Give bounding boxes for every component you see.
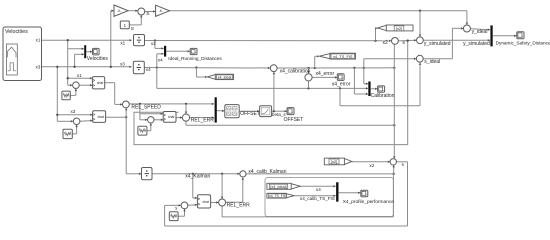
- svg-text:[x4_ideal]: [x4_ideal]: [270, 185, 286, 189]
- svg-text:Ideal_Running_Distances: Ideal_Running_Distances: [168, 56, 222, 61]
- svg-text:x2: x2: [383, 40, 389, 46]
- svg-text:[x2]: [x2]: [396, 26, 402, 31]
- svg-text:xhat: xhat: [168, 115, 174, 119]
- svg-text:x4_TS_FIS: x4_TS_FIS: [269, 194, 287, 198]
- svg-text:x4_ideal: x4_ideal: [218, 76, 232, 80]
- svg-text:x3: x3: [36, 64, 41, 69]
- svg-text:x4: x4: [158, 57, 163, 62]
- svg-text:Calibration: Calibration: [371, 93, 395, 99]
- svg-text:y_simulated: y_simulated: [463, 41, 490, 47]
- svg-text:xhat: xhat: [97, 115, 103, 119]
- svg-text:x4_calib_Kalman: x4_calib_Kalman: [248, 169, 286, 175]
- svg-text:Dynamic_Safety_Distance: Dynamic_Safety_Distance: [496, 41, 550, 46]
- svg-text:-K-: -K-: [117, 9, 121, 13]
- svg-text:-K-: -K-: [159, 9, 163, 13]
- svg-text:x4_calib_TS_FIS: x4_calib_TS_FIS: [300, 196, 335, 201]
- svg-text:x1: x1: [36, 38, 41, 43]
- svg-text:REL_ERR: REL_ERR: [191, 117, 214, 123]
- svg-text:X4_profile_performance: X4_profile_performance: [343, 199, 395, 205]
- svg-text:x2: x2: [369, 163, 374, 168]
- svg-text:x4: x4: [146, 67, 151, 72]
- svg-text:x4_Kalman: x4_Kalman: [185, 173, 210, 179]
- svg-text:[x2]: [x2]: [331, 159, 337, 164]
- svg-text:S: S: [131, 26, 134, 32]
- svg-text:x4_error: x4_error: [332, 82, 351, 88]
- svg-text:y_ideal: y_ideal: [472, 29, 488, 35]
- svg-text:x1: x1: [77, 73, 82, 78]
- svg-text:xhat: xhat: [97, 81, 103, 85]
- svg-text:x4_calibration: x4_calibration: [280, 68, 311, 74]
- svg-text:x4_TS_FIS: x4_TS_FIS: [333, 54, 353, 59]
- svg-text:xhat: xhat: [202, 200, 208, 204]
- svg-text:REL_ERR: REL_ERR: [227, 203, 250, 209]
- svg-text:x2: x2: [151, 41, 156, 46]
- svg-text:x4_error: x4_error: [316, 71, 335, 77]
- svg-text:x1: x1: [120, 40, 125, 45]
- svg-text:x3: x3: [120, 61, 125, 66]
- svg-text:OFFSET: OFFSET: [240, 111, 260, 117]
- svg-text:Velocities: Velocities: [5, 29, 28, 35]
- svg-text:s_ideal: s_ideal: [424, 59, 440, 65]
- svg-text:Velocities: Velocities: [87, 56, 109, 62]
- svg-text:OFFSET: OFFSET: [284, 117, 304, 123]
- svg-text:S: S: [146, 11, 149, 17]
- svg-text:x4: x4: [316, 187, 321, 192]
- svg-text:y_simulated: y_simulated: [424, 41, 451, 47]
- svg-text:x3: x3: [71, 109, 76, 114]
- svg-text:REL_SPEED: REL_SPEED: [131, 105, 161, 111]
